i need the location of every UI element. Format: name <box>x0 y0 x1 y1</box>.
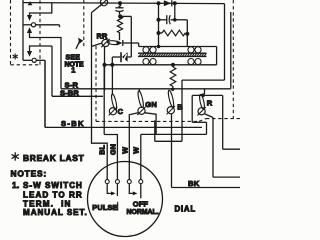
svg-text:W: W <box>120 147 129 154</box>
svg-text:R: R <box>207 99 213 108</box>
svg-text:B: B <box>177 102 183 111</box>
svg-text:MANUAL SET.: MANUAL SET. <box>23 208 88 217</box>
svg-text:OFF: OFF <box>133 199 149 208</box>
svg-text:BL: BL <box>98 144 107 154</box>
svg-text:SEE: SEE <box>66 54 81 61</box>
svg-text:NORMAL.: NORMAL. <box>127 209 159 216</box>
svg-text:1.: 1. <box>12 180 19 190</box>
svg-text:PULSE: PULSE <box>92 203 117 212</box>
svg-text:GN: GN <box>145 100 157 109</box>
svg-text:W: W <box>132 147 141 154</box>
svg-text:C: C <box>118 107 124 116</box>
svg-text:S-BR: S-BR <box>60 89 79 98</box>
svg-text:1: 1 <box>71 66 75 75</box>
svg-text:NOTES:: NOTES: <box>11 168 47 178</box>
svg-text:BK: BK <box>188 179 200 188</box>
svg-text:LEAD TO RR: LEAD TO RR <box>23 190 83 199</box>
svg-text:DIAL: DIAL <box>175 205 196 214</box>
svg-text:GN: GN <box>108 144 117 155</box>
svg-text:BREAK LAST: BREAK LAST <box>23 153 85 163</box>
svg-text:TERM. IN: TERM. IN <box>23 199 72 208</box>
svg-text:S-W SWITCH: S-W SWITCH <box>23 181 83 190</box>
